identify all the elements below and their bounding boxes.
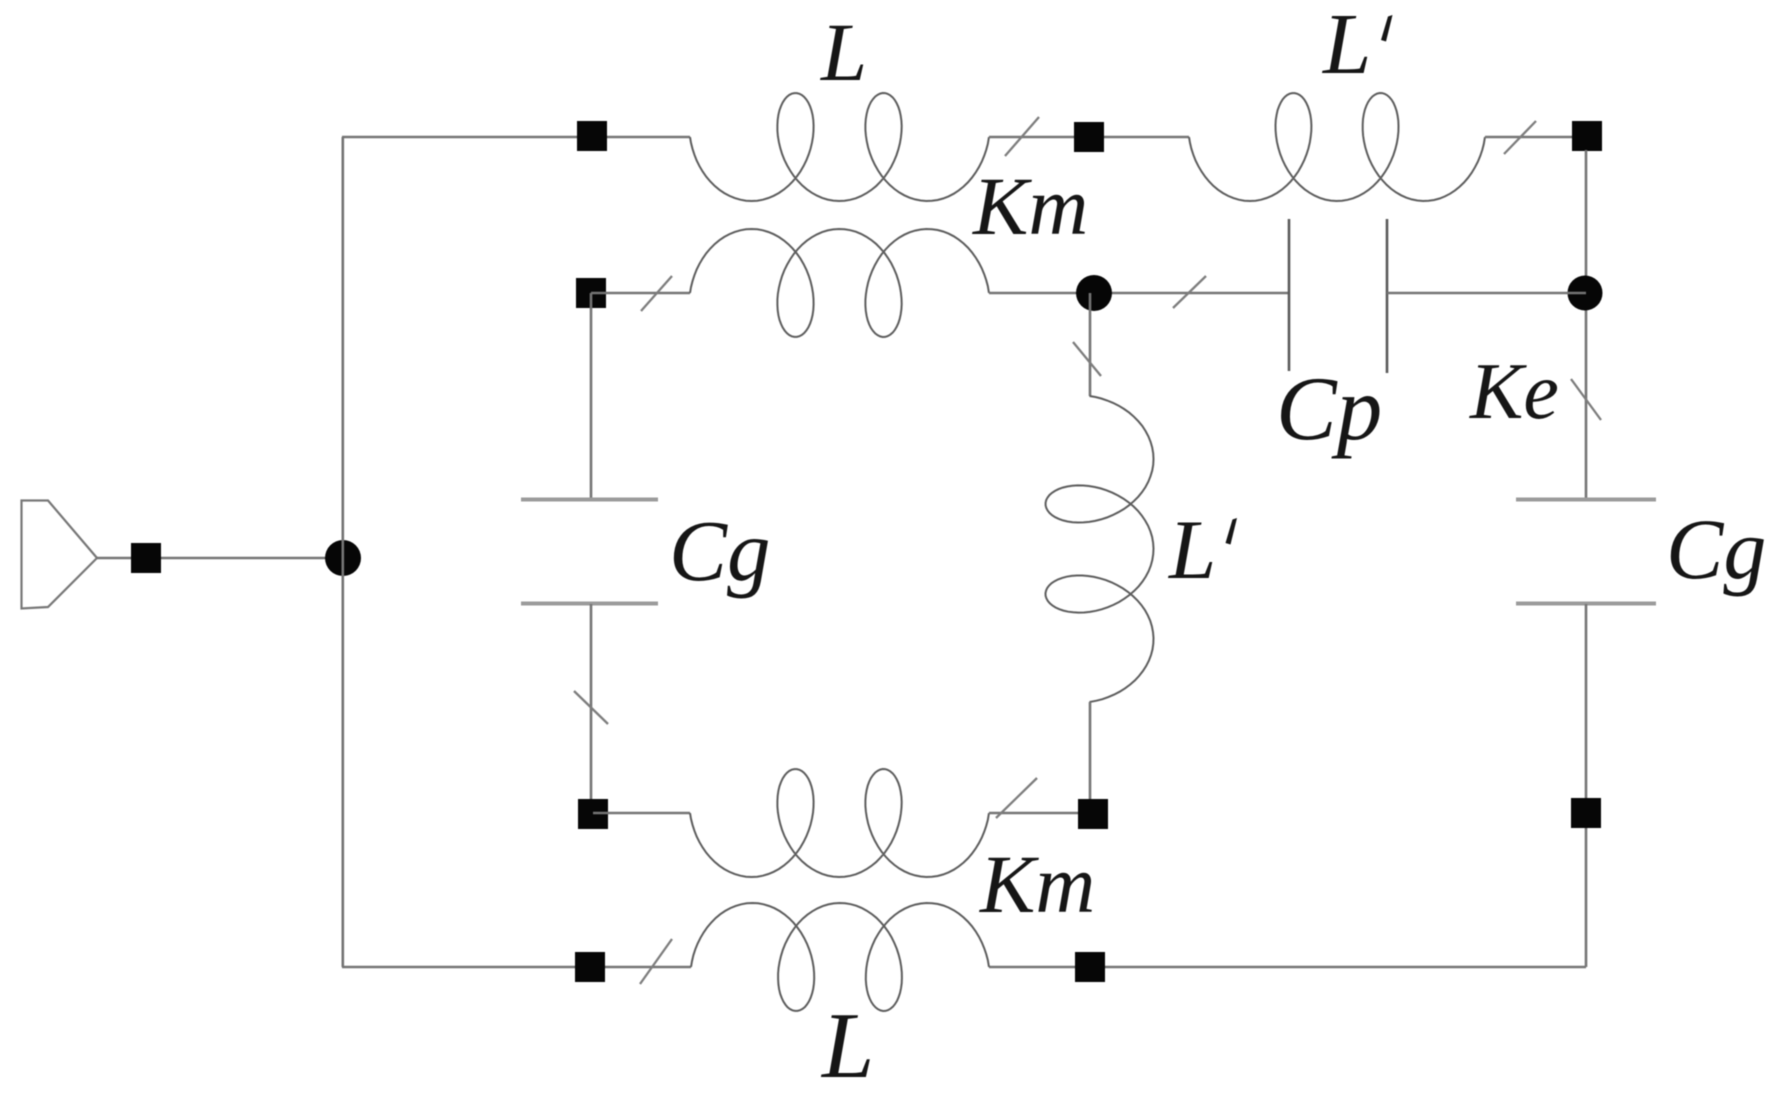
slash mark 6 <box>574 691 608 724</box>
inductor L top <box>690 93 989 201</box>
wire right vertical lower <box>1585 604 1588 967</box>
terminal square S6 <box>578 799 608 829</box>
inductor L-prime top <box>1189 93 1485 201</box>
wire Lprime coil to S7 <box>1089 702 1092 813</box>
capacitor Cp left plate <box>1288 219 1291 371</box>
input port transducer <box>22 501 98 609</box>
svg-text:L: L <box>820 994 874 1095</box>
terminal square S9 <box>575 952 605 982</box>
terminal square S4 <box>576 278 606 308</box>
inductor L bottom <box>691 903 989 1011</box>
terminal square S7 <box>1078 799 1108 829</box>
slash mark 2 <box>1504 121 1536 154</box>
wire S6 to Km bottom coil <box>593 812 690 815</box>
slash mark Ke <box>1571 379 1601 420</box>
svg-text:Km: Km <box>979 838 1095 930</box>
wire S4 to Km coil <box>591 292 690 295</box>
wire right vertical upper <box>1585 150 1588 499</box>
slash mark 4 <box>1173 276 1206 308</box>
slash mark 7 <box>996 778 1037 818</box>
wire S4 down to Cg left <box>590 293 593 499</box>
svg-text:Ke: Ke <box>1469 348 1559 436</box>
terminal square S5 input <box>131 543 161 573</box>
svg-text:L: L <box>820 6 867 98</box>
terminal square S3 <box>1572 121 1602 151</box>
terminal square S8 <box>1571 798 1601 828</box>
svg-text:Km: Km <box>972 160 1088 252</box>
wire bottom right horizontal <box>989 966 1586 969</box>
wire left vertical bus <box>341 137 344 967</box>
capacitor Cg left top plate <box>521 498 658 502</box>
svg-text:Cp: Cp <box>1276 358 1382 459</box>
svg-text:Cg: Cg <box>669 502 771 599</box>
slash mark 8 <box>640 939 672 984</box>
wire bottom left horizontal <box>342 966 691 969</box>
svg-text:L: L <box>1321 0 1371 92</box>
terminal square S10 <box>1075 952 1105 982</box>
wire L to S2 <box>989 136 1189 139</box>
inductor L-prime vertical <box>1046 396 1154 702</box>
slash mark 3 <box>641 276 672 311</box>
wire Cg left down to S6 <box>590 604 593 813</box>
node A input junction dot <box>325 540 361 576</box>
capacitor Cg left bottom plate <box>521 602 658 606</box>
slash mark 5 <box>1073 342 1101 376</box>
wire Lprime to S3 <box>1485 136 1587 139</box>
wire input to node A <box>97 557 343 560</box>
svg-text:L: L <box>1168 503 1216 597</box>
node B dot right <box>1568 276 1603 311</box>
capacitor Cg right top plate <box>1516 498 1656 502</box>
inductor Km bottom coupling coil <box>690 769 989 877</box>
node C dot middle <box>1076 275 1112 311</box>
slash mark 1 <box>1005 117 1039 156</box>
wire Km coil to Cp <box>989 292 1289 295</box>
wire node C down to Lprime coil <box>1089 293 1092 396</box>
wire Cp to node B <box>1387 292 1586 295</box>
terminal square S1 <box>577 121 607 151</box>
svg-text:Cg: Cg <box>1666 501 1766 597</box>
inductor Km top coupling coil <box>690 229 989 337</box>
capacitor Cg right bottom plate <box>1516 602 1656 606</box>
wire Km bottom coil to S7 <box>989 812 1092 815</box>
capacitor Cp right plate <box>1386 219 1389 373</box>
wire top left horizontal <box>342 136 690 139</box>
terminal square S2 <box>1074 122 1104 152</box>
